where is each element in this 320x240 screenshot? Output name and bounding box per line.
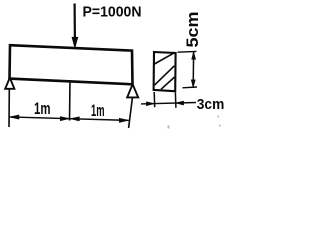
svg-text:1m: 1m xyxy=(34,100,51,118)
3cm dimension line xyxy=(141,92,196,108)
svg-text:5cm: 5cm xyxy=(184,12,202,48)
hatch line 1 xyxy=(154,53,173,64)
hatch line 2 xyxy=(154,66,174,85)
load arrow P xyxy=(72,4,77,48)
middle extension tick xyxy=(69,80,72,121)
left extension line xyxy=(8,90,10,128)
svg-text:1m: 1m xyxy=(91,102,105,120)
svg-text:3cm: 3cm xyxy=(197,96,225,113)
beam xyxy=(10,45,133,84)
5cm dimension line xyxy=(178,51,198,87)
dimension line 1m+1m xyxy=(9,115,129,123)
right support triangle xyxy=(127,84,138,97)
svg-text:P=1000N: P=1000N xyxy=(83,4,142,21)
cross-section rectangle xyxy=(154,52,176,91)
hatch line 3 xyxy=(161,77,175,89)
left support triangle xyxy=(5,78,14,89)
scan speckles xyxy=(168,116,221,129)
right extension line xyxy=(129,98,133,128)
